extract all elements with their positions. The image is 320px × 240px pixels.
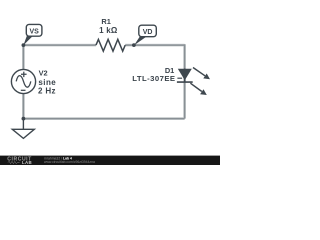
svg-text:VD: VD [143, 29, 153, 36]
svg-text:LAB: LAB [22, 160, 32, 165]
LED light arrow 1 [193, 68, 210, 80]
svg-text:1 kΩ: 1 kΩ [99, 26, 118, 35]
LED light arrow 2 [190, 83, 206, 95]
ground [12, 119, 34, 139]
wire top-left horizontal (node VS to R1) [23, 44, 96, 46]
resistor R1 [96, 39, 125, 51]
svg-text:LTL-307EE: LTL-307EE [132, 74, 175, 83]
svg-text:R1: R1 [101, 17, 110, 26]
wire top-right horizontal (R1 to corner) [125, 44, 184, 46]
net flag VD [134, 25, 156, 45]
junction node VD [132, 43, 136, 47]
watermark bar [0, 156, 220, 165]
LED D1 [177, 69, 193, 83]
junction node VS [22, 43, 26, 47]
svg-text:2 Hz: 2 Hz [38, 86, 56, 95]
ground node junction [22, 117, 26, 121]
svg-text:www.circuitlab.com/c96zt3944zn: www.circuitlab.com/c96zt3944zna [44, 160, 95, 164]
net flag VS [23, 24, 42, 45]
wire halo group [23, 44, 184, 118]
wire left vertical lower (V2 bottom to ground node) [22, 94, 24, 119]
wire bottom horizontal [23, 118, 184, 120]
voltage source V2 [11, 69, 35, 93]
svg-text:VS: VS [30, 29, 40, 36]
wire right vertical (corner to D1, D1 to bottom corner) [184, 44, 186, 118]
wire left vertical upper (VS node to V2 top) [22, 44, 24, 69]
svg-text:V2: V2 [39, 69, 48, 78]
